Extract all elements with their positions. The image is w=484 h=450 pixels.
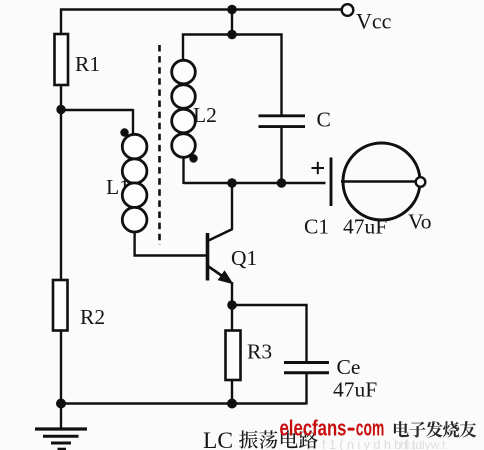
svg-text:Ce: Ce bbox=[337, 355, 361, 379]
wire Ce bottom bbox=[305, 373, 307, 405]
wire C bottom to node D bbox=[280, 127, 282, 184]
capacitor C1 plate bbox=[330, 158, 333, 207]
wire node C to capacitor C bbox=[231, 35, 282, 117]
wire ground stem bbox=[60, 404, 62, 430]
wire R2 to ground node bbox=[60, 331, 62, 405]
capacitor C bbox=[259, 116, 306, 127]
wire collector bbox=[231, 183, 233, 230]
caption char zhen bbox=[239, 430, 258, 448]
svg-text:R1: R1 bbox=[75, 52, 100, 76]
L1 polarity dot bbox=[120, 128, 128, 136]
L2 polarity dot bbox=[189, 154, 197, 162]
label + polarity of C1 bbox=[312, 162, 325, 174]
svg-text:C1: C1 bbox=[304, 215, 329, 239]
resistor R1 bbox=[55, 34, 69, 85]
svg-text:hi.jdlyw.t: hi.jdlyw.t bbox=[400, 438, 446, 450]
wire node C to L2 top bbox=[183, 35, 232, 62]
wire left rail top (to R1) bbox=[60, 9, 62, 36]
watermark char you bbox=[460, 421, 477, 437]
svg-text:R2: R2 bbox=[80, 305, 105, 329]
wire top rail bbox=[60, 8, 342, 10]
svg-text:47uF: 47uF bbox=[343, 215, 387, 239]
wire emitter to node F bbox=[231, 282, 233, 306]
node B junction dot (top rail) bbox=[227, 5, 237, 15]
svg-text:L2: L2 bbox=[193, 103, 217, 127]
wire R3 to bottom rail bbox=[231, 380, 233, 404]
transformer core dashed line bbox=[158, 45, 161, 245]
svg-text:Vo: Vo bbox=[408, 210, 432, 234]
ground node junction dot bbox=[56, 399, 66, 409]
svg-text:Vcc: Vcc bbox=[356, 9, 392, 34]
inductor L2 coil bbox=[172, 60, 196, 157]
watermark char zi bbox=[409, 422, 425, 438]
wire Vo diameter bbox=[341, 180, 416, 182]
inductor L1 coil bbox=[122, 134, 147, 232]
wire node F to Ce branch bbox=[232, 305, 307, 363]
wire L2 bottom down bbox=[182, 156, 184, 184]
node D junction dot bbox=[277, 178, 287, 188]
node C junction dot bbox=[227, 30, 237, 40]
svg-text:com: com bbox=[356, 416, 385, 441]
output transducer circle Vo bbox=[343, 143, 420, 220]
caption char dian bbox=[281, 430, 298, 448]
terminal Vo small circle bbox=[416, 177, 426, 187]
terminal Vcc circle bbox=[342, 4, 354, 16]
wire mid rail (L2 to C1) bbox=[184, 182, 326, 184]
wire node A to R2 bbox=[60, 110, 62, 281]
caption char dang bbox=[259, 430, 277, 448]
watermark char fa bbox=[426, 421, 443, 437]
svg-text:C: C bbox=[317, 108, 331, 132]
resistor R2 bbox=[53, 280, 68, 331]
wire R1 to node A bbox=[60, 85, 62, 112]
node G junction dot bbox=[227, 399, 237, 409]
watermark char shao bbox=[443, 421, 459, 437]
node E junction dot bbox=[227, 178, 237, 188]
wire node F to R3 bbox=[231, 305, 233, 331]
svg-text:elecfans: elecfans bbox=[280, 416, 347, 441]
ground symbol bbox=[35, 429, 87, 449]
svg-text:LC: LC bbox=[203, 428, 233, 450]
wire node B down to node C bbox=[231, 10, 233, 37]
wire bottom rail bbox=[61, 402, 307, 405]
watermark char dian2 bbox=[394, 421, 409, 437]
svg-text:47uF: 47uF bbox=[333, 378, 377, 402]
wire L1 bottom to base bbox=[135, 231, 207, 256]
capacitor Ce bbox=[284, 363, 329, 373]
transistor Q1 bbox=[208, 229, 233, 284]
svg-text:R3: R3 bbox=[247, 340, 272, 364]
wire node A to L1 top (horizontal) bbox=[61, 109, 133, 111]
watermark logo dot bbox=[348, 428, 355, 431]
node F junction dot bbox=[227, 300, 237, 310]
node A junction dot bbox=[56, 105, 65, 114]
wire down to L1 top bbox=[132, 109, 134, 136]
caption char lu bbox=[299, 430, 318, 448]
resistor R3 bbox=[226, 331, 241, 381]
svg-text:Q1: Q1 bbox=[231, 246, 257, 270]
